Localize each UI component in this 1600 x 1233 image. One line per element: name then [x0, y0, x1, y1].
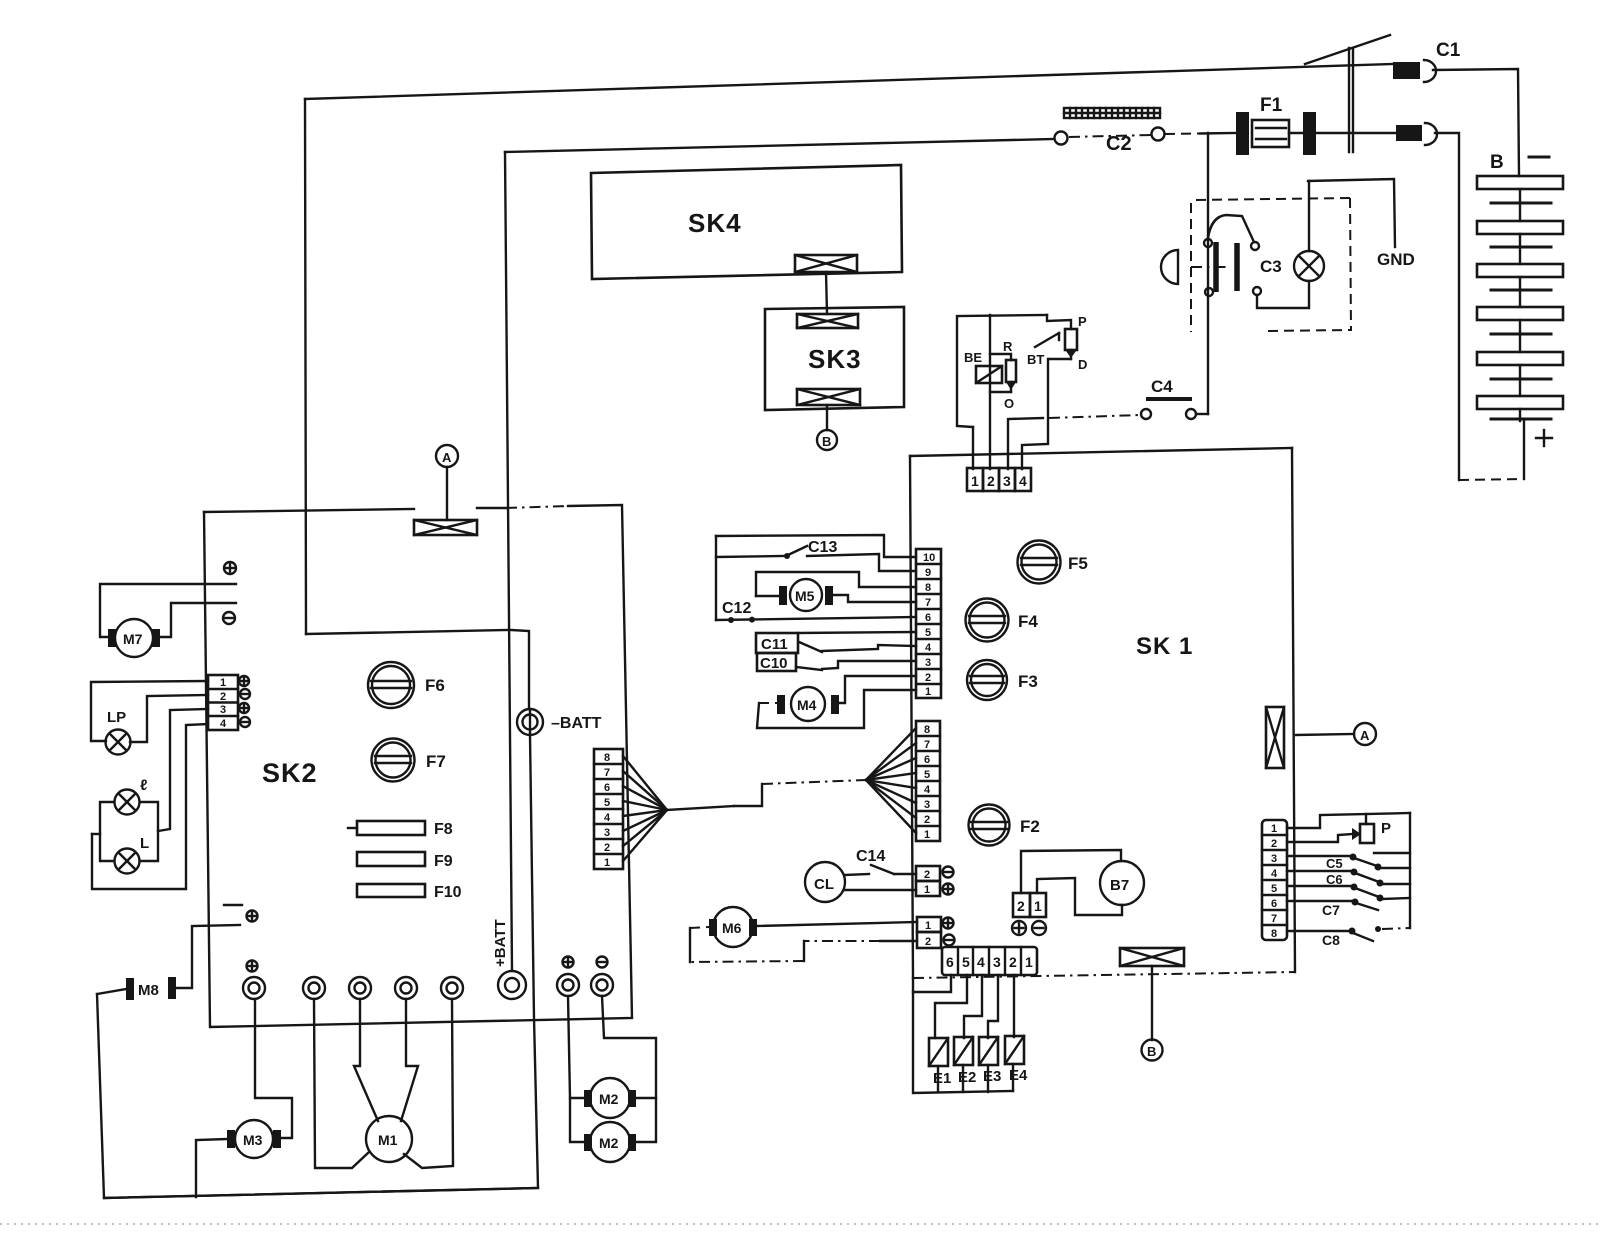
- pin number 1: [924, 884, 930, 896]
- terminal minus above T7: [597, 957, 608, 968]
- terminal plus: [239, 703, 249, 713]
- label SK4: [688, 208, 742, 238]
- terminal T3: [349, 977, 371, 999]
- wire: -BATT hook: [511, 630, 529, 709]
- lamp LP: [106, 730, 131, 755]
- wire: T7 to M2 bus right: [602, 996, 656, 1142]
- label L (lower lamp): [140, 835, 149, 852]
- ground GND wire: [1308, 179, 1395, 247]
- wire: +BATT stem (C2 feed down through SK2): [505, 152, 512, 970]
- antenna mast: [1305, 35, 1390, 152]
- svg-text:7: 7: [925, 597, 931, 609]
- svg-text:6: 6: [924, 754, 930, 766]
- label SK2: [262, 758, 318, 788]
- label C5: [1326, 856, 1343, 871]
- svg-text:M2: M2: [599, 1135, 619, 1151]
- wire: fuse link to node B: [1151, 966, 1153, 1040]
- wire: SK4 to SK3: [826, 272, 827, 314]
- label C10: [757, 653, 796, 672]
- block SK4: [591, 165, 902, 279]
- connector C12 contacts: [728, 617, 755, 623]
- switch C7b: [1287, 898, 1410, 910]
- switch C13: [788, 546, 807, 555]
- wire: pin 2 stem through BE: [989, 315, 991, 469]
- svg-text:1: 1: [924, 884, 930, 896]
- label M7: [123, 631, 143, 647]
- label l (upper lamp): [140, 777, 147, 794]
- connector SK1 top 1|2|3|4: [967, 468, 1031, 491]
- connector C1 lower terminal: [1396, 123, 1437, 145]
- motor M5: [756, 579, 833, 611]
- wire: harness fan-out into SK1 strip: [866, 728, 916, 833]
- pin number 2: [925, 936, 931, 948]
- label +BATT: [492, 919, 509, 967]
- element E3: [979, 1037, 998, 1065]
- svg-text:C7: C7: [1322, 902, 1340, 918]
- svg-text:C2: C2: [1106, 133, 1132, 155]
- svg-text:1: 1: [971, 473, 979, 489]
- fuse M8: [126, 977, 176, 1000]
- svg-text:R: R: [1003, 339, 1013, 354]
- wire: M7 lower lead: [160, 603, 236, 637]
- label C12: [722, 600, 751, 617]
- svg-text:4: 4: [977, 954, 985, 970]
- node A: [1354, 723, 1376, 745]
- svg-text:4: 4: [1019, 473, 1027, 489]
- fuse F8: [348, 821, 425, 835]
- wire: C11 common to pin 5: [798, 632, 916, 633]
- wire: M8 to minus terminal: [176, 925, 240, 988]
- terminal minus: [1032, 921, 1046, 935]
- svg-text:6: 6: [1271, 898, 1277, 910]
- svg-text:L: L: [140, 835, 149, 852]
- svg-text:LP: LP: [107, 709, 126, 726]
- fuse link SK2 top: [414, 520, 477, 535]
- svg-text:10: 10: [923, 552, 935, 564]
- label M2: [599, 1091, 619, 1107]
- label C14: [856, 848, 885, 865]
- connector strip SK1 left 1-10: [916, 549, 941, 698]
- label M8: [138, 982, 159, 999]
- pin number 3: [1003, 473, 1011, 489]
- label R: [1003, 339, 1013, 354]
- battery minus mark: [1529, 156, 1549, 159]
- wire: pin 3 to E3: [988, 975, 998, 1038]
- svg-text:5: 5: [604, 797, 610, 809]
- svg-text:F10: F10: [434, 884, 462, 901]
- svg-text:BT: BT: [1027, 352, 1044, 367]
- svg-text:1: 1: [924, 829, 930, 841]
- switch BT blade: [1035, 333, 1059, 347]
- svg-text:A: A: [1360, 728, 1370, 743]
- lamp housing (half shell): [1161, 250, 1178, 284]
- svg-text:O: O: [1004, 396, 1014, 411]
- label D: [1078, 357, 1087, 372]
- svg-text:BE: BE: [964, 350, 982, 365]
- wire: connector 2 to B7 top: [1021, 850, 1121, 893]
- fuse F5: [1018, 541, 1061, 584]
- svg-text:3: 3: [993, 954, 1001, 970]
- fuse F3: [967, 660, 1007, 700]
- wire: F1 junction down to C4 (ignition feed): [1207, 133, 1209, 414]
- svg-text:4: 4: [220, 718, 227, 730]
- label P: [1078, 314, 1087, 329]
- label M2: [599, 1135, 619, 1151]
- svg-text:5: 5: [925, 627, 931, 639]
- fuse link SK3 top: [797, 314, 858, 328]
- wire: M4 right to pin 2: [839, 676, 916, 703]
- label E3: [983, 1068, 1001, 1085]
- label C3: [1260, 257, 1282, 276]
- svg-text:–BATT: –BATT: [551, 715, 602, 732]
- motor M3: [227, 1120, 281, 1158]
- label C13: [808, 539, 837, 556]
- label B7: [1110, 877, 1129, 894]
- connector C4 bar: [1146, 397, 1192, 401]
- wire: pin 4 loop to lamps left bus: [92, 724, 208, 889]
- wire: C4 dash-dot to switch unit: [1049, 415, 1140, 418]
- svg-text:8: 8: [604, 752, 610, 764]
- svg-text:M6: M6: [722, 920, 742, 936]
- relay coil BE: [976, 366, 1002, 383]
- wire: pin 1 to horn bus: [1287, 813, 1410, 828]
- svg-text:1: 1: [925, 686, 931, 698]
- connector strip SK2 left 1-4: [208, 675, 238, 730]
- connector SK1 left 1|2: [917, 917, 941, 948]
- pin number 2: [924, 869, 930, 881]
- terminal minus: [944, 935, 955, 946]
- fuse F1: [1236, 112, 1316, 155]
- wire: M6 to connector pin 1: [757, 922, 917, 926]
- terminal minus (SK2 left): [223, 612, 235, 624]
- contact breaker points: [1204, 239, 1237, 296]
- svg-text:F5: F5: [1068, 554, 1088, 573]
- svg-text:M2: M2: [599, 1091, 619, 1107]
- wire: SK3 to node B: [826, 405, 828, 430]
- lamp l: [115, 790, 140, 815]
- svg-text:D: D: [1078, 357, 1087, 372]
- terminal T5: [441, 977, 463, 999]
- wire: B7 bottom to connector 1: [1037, 878, 1122, 915]
- svg-text:B7: B7: [1110, 877, 1129, 894]
- svg-text:3: 3: [220, 704, 226, 716]
- pin number 2: [1017, 898, 1025, 914]
- wire: harness trunk SK2 to SK1: [667, 780, 866, 810]
- svg-text:7: 7: [924, 739, 930, 751]
- wire: M6 return loop (dash-dot) to pin 2: [690, 927, 917, 962]
- terminal T4: [395, 977, 417, 999]
- svg-text:5: 5: [924, 769, 930, 781]
- connector C2 body (hatched bar): [1064, 108, 1160, 118]
- label F4: [1018, 612, 1038, 631]
- pin number 1: [1034, 898, 1042, 914]
- label BE: [964, 350, 982, 365]
- svg-text:F8: F8: [434, 821, 453, 838]
- connector C2 left contact: [1055, 132, 1068, 145]
- wire: C13 to pin 9: [807, 554, 916, 571]
- node B: [1142, 1040, 1163, 1061]
- lamp L: [115, 849, 140, 874]
- svg-text:CL: CL: [814, 876, 834, 893]
- connector C2 right contact: [1152, 128, 1165, 141]
- label SK3: [808, 344, 862, 374]
- battery B cells: [1477, 176, 1563, 421]
- wire: M7 upper lead: [100, 584, 236, 637]
- svg-text:M3: M3: [243, 1132, 263, 1148]
- svg-text:2: 2: [220, 691, 226, 703]
- svg-text:3: 3: [604, 827, 610, 839]
- horn P: [1352, 824, 1374, 843]
- label BT: [1027, 352, 1044, 367]
- motor M1: [366, 1116, 412, 1162]
- label F2: [1020, 817, 1040, 836]
- node B: [817, 430, 837, 450]
- wire: M5 loop top to pin 8: [756, 572, 916, 596]
- svg-text:F9: F9: [434, 853, 453, 870]
- wire: T4 to M1: [401, 999, 418, 1121]
- svg-text:5: 5: [962, 954, 970, 970]
- svg-text:B: B: [822, 434, 831, 449]
- wire: T3 to M1: [354, 999, 378, 1121]
- svg-text:C13: C13: [808, 539, 837, 556]
- svg-text:B: B: [1147, 1044, 1156, 1059]
- element E1: [929, 1038, 948, 1066]
- label M4: [797, 697, 817, 713]
- label F6: [425, 676, 445, 695]
- wire: pin 4 to E2: [964, 975, 982, 1038]
- motor M2 upper: [584, 1078, 636, 1118]
- svg-text:1: 1: [604, 857, 610, 869]
- ground GND label: [1377, 250, 1415, 269]
- page separator dots: [0, 1223, 1600, 1225]
- clock CL: [805, 862, 845, 902]
- switch C6: [1287, 868, 1410, 887]
- terminal minus: [943, 867, 954, 878]
- fuse F7: [372, 739, 415, 782]
- connector strip SK1 right 1-8: [1262, 820, 1287, 940]
- motor M6: [709, 907, 757, 947]
- fuse link SK1 bottom: [1120, 948, 1184, 966]
- svg-text:E2: E2: [958, 1069, 976, 1086]
- svg-text:M8: M8: [138, 982, 159, 999]
- wire: horizontal link at y=631 to +BATT stem: [306, 630, 508, 634]
- motor M2 lower: [584, 1122, 636, 1162]
- svg-text:M5: M5: [795, 588, 815, 604]
- motor M7: [108, 619, 160, 657]
- switch C14: [871, 865, 894, 874]
- svg-text:C8: C8: [1322, 932, 1340, 948]
- svg-text:A: A: [442, 450, 452, 465]
- label F1: [1260, 95, 1283, 116]
- wire: lamp C3 top to GND branch: [1308, 181, 1310, 251]
- pin number 4: [1019, 473, 1027, 489]
- svg-text:1: 1: [1271, 823, 1277, 835]
- svg-text:3: 3: [1003, 473, 1011, 489]
- label C7: [1322, 902, 1340, 918]
- pin numbers 6 5 4 3 2 1: [946, 954, 1033, 970]
- terminal plus: [1012, 921, 1026, 935]
- label E1: [933, 1070, 951, 1087]
- label M3: [243, 1132, 263, 1148]
- fuse F4: [966, 599, 1009, 642]
- svg-text:4: 4: [604, 812, 611, 824]
- switch C5: [1287, 853, 1410, 871]
- wire: T5 to M1: [404, 999, 453, 1168]
- svg-text:6: 6: [946, 954, 954, 970]
- wire: C2 feed from +BATT stem top: [505, 139, 1054, 152]
- svg-text:C4: C4: [1151, 377, 1173, 396]
- wire: BT/P common to pin 4: [1022, 359, 1071, 469]
- svg-text:C1: C1: [1436, 40, 1461, 61]
- label B (battery): [1490, 152, 1504, 173]
- svg-text:6: 6: [925, 612, 931, 624]
- svg-text:C10: C10: [760, 655, 788, 672]
- node A: [436, 445, 458, 467]
- wire: C2 right contact to F1: [1165, 133, 1236, 134]
- wire: chassis bottom rail: [104, 1188, 538, 1198]
- svg-text:1: 1: [1034, 898, 1042, 914]
- label C4: [1151, 377, 1173, 396]
- label M5: [795, 588, 815, 604]
- terminal T1: [243, 977, 265, 999]
- label F3: [1018, 672, 1038, 691]
- svg-text:M1: M1: [378, 1132, 398, 1148]
- wire: left drop of main feed (node at SK2 area): [305, 99, 306, 634]
- svg-text:2: 2: [924, 814, 930, 826]
- wire: pin 1 to lamp LP: [91, 681, 208, 741]
- terminal plus: [239, 676, 249, 686]
- svg-text:C6: C6: [1326, 872, 1343, 887]
- label E2: [958, 1069, 976, 1086]
- resistor P: [1047, 315, 1077, 359]
- svg-text:C5: C5: [1326, 856, 1343, 871]
- resistor R: [990, 354, 1016, 392]
- label -BATT: [551, 715, 602, 732]
- wire: E elements common rail: [913, 978, 1013, 1093]
- label C8: [1322, 932, 1340, 948]
- wire: C13 left feed: [716, 553, 790, 559]
- svg-text:F4: F4: [1018, 612, 1038, 631]
- svg-text:F7: F7: [426, 752, 446, 771]
- pin numbers strip 1-10: [923, 552, 935, 698]
- fuse F2: [969, 805, 1010, 846]
- terminal plus above T6: [563, 957, 574, 968]
- svg-text:M7: M7: [123, 631, 143, 647]
- wire: C12 link to pin 6: [716, 536, 916, 620]
- ignition points dashed enclosure: [1191, 198, 1351, 332]
- switch C11: [799, 642, 822, 652]
- svg-text:SK 1: SK 1: [1136, 633, 1193, 660]
- pin number 2: [987, 473, 995, 489]
- wire: pin 2 to E4: [1013, 975, 1015, 1037]
- wire: pin 5 to E1: [935, 975, 967, 1038]
- svg-text:8: 8: [924, 724, 930, 736]
- wire: CL lower to connector: [844, 889, 916, 891]
- terminal plus (SK2 top left): [224, 562, 236, 574]
- svg-text:7: 7: [1271, 913, 1277, 925]
- wire: M5 right to pin 7: [833, 595, 916, 602]
- svg-text:C11: C11: [761, 636, 788, 653]
- pin number 1: [925, 920, 931, 932]
- label F5: [1068, 554, 1088, 573]
- motor M4: [777, 687, 839, 721]
- pin number 1: [971, 473, 979, 489]
- wire: C1 upper to battery negative top: [1433, 69, 1519, 176]
- svg-text:SK4: SK4: [688, 208, 742, 238]
- svg-text:E3: E3: [983, 1068, 1001, 1085]
- wire: pin 6 to ground rail: [913, 975, 951, 992]
- label F9: [434, 853, 453, 870]
- label F8: [434, 821, 453, 838]
- fuse F9: [357, 852, 425, 866]
- connector strip SK2 right 1-8: [594, 749, 623, 869]
- label C1: [1436, 40, 1461, 61]
- svg-text:3: 3: [1271, 853, 1277, 865]
- svg-text:F2: F2: [1020, 817, 1040, 836]
- svg-text:E1: E1: [933, 1070, 951, 1087]
- label F7: [426, 752, 446, 771]
- terminal minus: [240, 689, 250, 699]
- wire: M4 left loop to pin 1: [757, 690, 916, 728]
- fuse F6: [368, 662, 414, 708]
- svg-text:1: 1: [220, 677, 226, 689]
- wire: C11 to pin 4: [822, 645, 916, 651]
- label F10: [434, 884, 462, 901]
- block SK1 outline: [910, 448, 1295, 978]
- svg-text:M4: M4: [797, 697, 817, 713]
- terminal plus: [943, 918, 954, 929]
- terminal plus: [943, 884, 954, 895]
- wire: T2 to M1: [314, 999, 368, 1168]
- switch C7: [1287, 884, 1410, 902]
- label M6: [722, 920, 742, 936]
- fuse link SK3 bottom: [797, 389, 860, 405]
- label P: [1381, 820, 1391, 837]
- wire: lamp C3 bottom return: [1253, 281, 1309, 308]
- svg-text:2: 2: [1017, 898, 1025, 914]
- wire: pin 3 stem: [1008, 418, 1043, 469]
- label M1: [378, 1132, 398, 1148]
- svg-text:1: 1: [925, 920, 931, 932]
- svg-text:2: 2: [987, 473, 995, 489]
- label C11: [756, 633, 798, 653]
- fuse link SK4 bottom: [795, 255, 857, 272]
- switch C8: [1287, 926, 1410, 941]
- wire: main feed from SK2 top-left corner to connector C1: [305, 64, 1393, 99]
- label C2: [1106, 133, 1132, 155]
- connector strip SK1 left 1-8: [916, 721, 940, 841]
- wire: -BATT down to chassis rail: [97, 735, 538, 1198]
- label C6: [1326, 872, 1343, 887]
- wire: F1 to connector C1 lower terminal: [1316, 132, 1396, 134]
- wire: pin 1 stem: [972, 427, 974, 469]
- wire: harness fan-out from SK2 strip: [623, 756, 667, 861]
- svg-text:4: 4: [925, 642, 932, 654]
- wire: loop feed to pin 10: [716, 535, 916, 557]
- wire: common bus right: [1409, 813, 1411, 928]
- svg-text:8: 8: [925, 582, 931, 594]
- lamp C3: [1294, 251, 1324, 281]
- connector SK1 left 2|1: [916, 866, 940, 896]
- svg-text:2: 2: [1271, 838, 1277, 850]
- switch C10: [796, 667, 822, 670]
- terminal T7: [591, 974, 613, 996]
- svg-text:P: P: [1381, 820, 1391, 837]
- pin numbers 1-4: [220, 677, 227, 730]
- fuse link SK1 right: [1266, 707, 1284, 768]
- svg-text:2: 2: [925, 936, 931, 948]
- label CL: [814, 876, 834, 893]
